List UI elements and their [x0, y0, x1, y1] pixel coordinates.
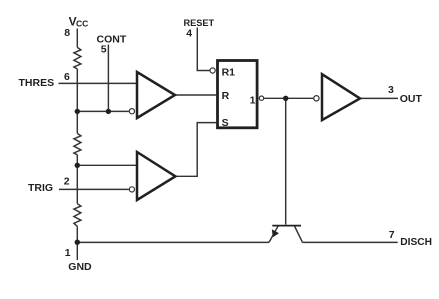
svg-text:S: S	[222, 117, 229, 129]
svg-text:R1: R1	[222, 66, 236, 78]
svg-text:R: R	[222, 90, 230, 102]
svg-text:GND: GND	[68, 261, 92, 273]
svg-text:5: 5	[101, 44, 107, 56]
svg-text:4: 4	[186, 28, 192, 40]
svg-text:3: 3	[388, 84, 394, 96]
svg-text:2: 2	[64, 176, 70, 188]
svg-text:THRES: THRES	[19, 77, 55, 89]
svg-text:TRIG: TRIG	[28, 182, 53, 194]
svg-text:8: 8	[64, 27, 70, 39]
svg-text:DISCH: DISCH	[400, 237, 432, 248]
svg-text:7: 7	[389, 229, 395, 241]
svg-text:6: 6	[64, 71, 70, 83]
svg-text:1: 1	[65, 247, 71, 259]
svg-text:OUT: OUT	[400, 93, 423, 105]
svg-text:CC: CC	[76, 19, 88, 29]
svg-text:1: 1	[250, 95, 256, 107]
